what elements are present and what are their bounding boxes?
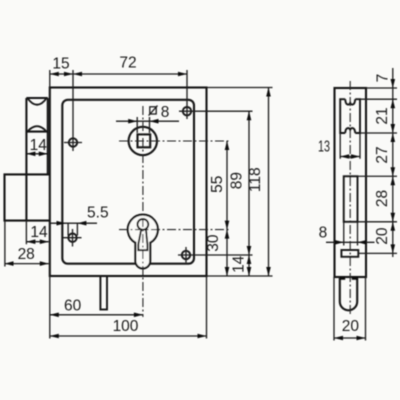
svg-text:13: 13 xyxy=(318,139,330,156)
svg-text:100: 100 xyxy=(113,318,139,335)
svg-text:8: 8 xyxy=(161,104,170,121)
svg-text:30: 30 xyxy=(205,234,222,252)
svg-text:60: 60 xyxy=(64,298,82,315)
svg-text:72: 72 xyxy=(119,55,136,72)
svg-text:14: 14 xyxy=(30,137,48,154)
svg-text:28: 28 xyxy=(374,190,391,207)
svg-text:28: 28 xyxy=(18,246,35,263)
svg-text:7: 7 xyxy=(375,74,392,83)
svg-text:27: 27 xyxy=(374,146,391,163)
svg-text:14: 14 xyxy=(231,255,248,273)
svg-text:20: 20 xyxy=(374,227,391,245)
svg-text:5.5: 5.5 xyxy=(87,204,109,221)
svg-text:89: 89 xyxy=(228,172,245,189)
svg-text:15: 15 xyxy=(52,56,69,73)
svg-text:55: 55 xyxy=(209,176,226,193)
svg-text:21: 21 xyxy=(374,107,391,124)
svg-text:14: 14 xyxy=(30,224,48,241)
svg-text:20: 20 xyxy=(342,318,360,335)
svg-text:118: 118 xyxy=(247,167,264,192)
svg-text:8: 8 xyxy=(319,224,328,241)
